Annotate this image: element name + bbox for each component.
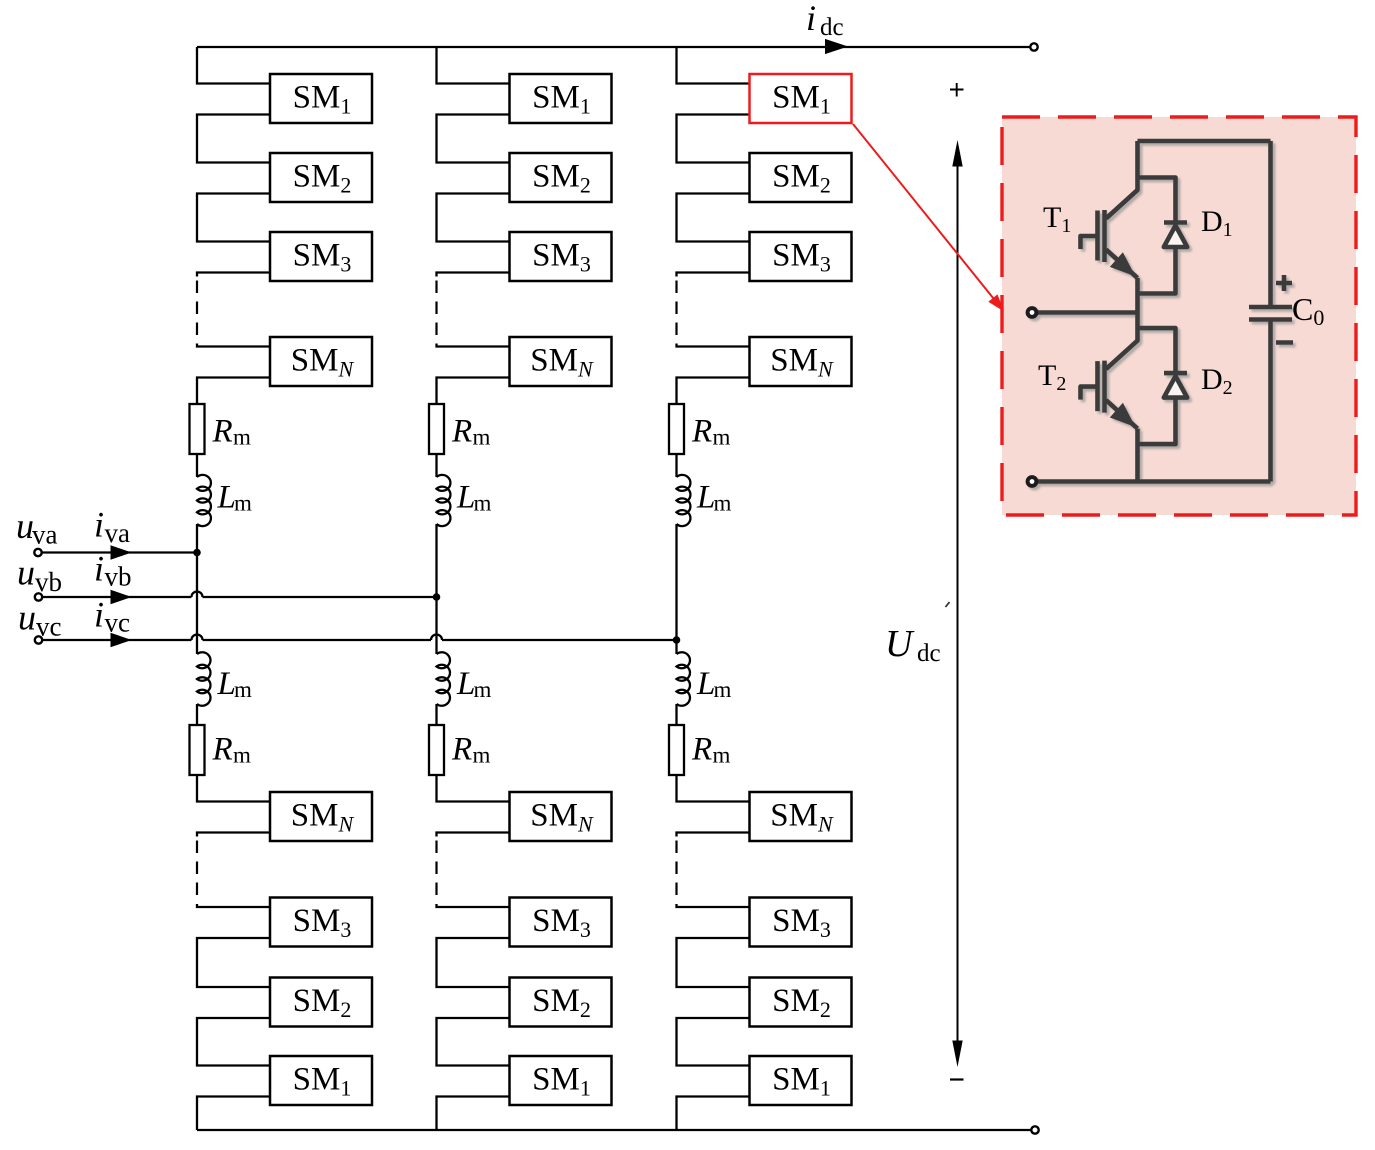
svg-text:R: R <box>691 414 712 450</box>
svg-text:dc: dc <box>917 640 941 667</box>
svg-text:m: m <box>714 677 732 702</box>
svg-text:L: L <box>217 480 236 516</box>
svg-text:u: u <box>17 553 35 593</box>
svg-text:m: m <box>714 491 732 516</box>
svg-text:L: L <box>696 666 715 702</box>
svg-text:dc: dc <box>820 14 844 41</box>
svg-text:L: L <box>696 480 715 516</box>
svg-text:i: i <box>94 505 104 545</box>
svg-text:m: m <box>713 425 731 450</box>
svg-text:m: m <box>713 743 731 768</box>
svg-text:U: U <box>885 623 915 665</box>
svg-text:L: L <box>217 666 236 702</box>
svg-text:u: u <box>18 598 36 638</box>
svg-text:R: R <box>451 732 472 768</box>
svg-text:m: m <box>473 743 491 768</box>
svg-text:R: R <box>212 732 233 768</box>
svg-text:i: i <box>806 0 816 38</box>
svg-text:vb: vb <box>35 567 62 597</box>
svg-text:L: L <box>456 666 475 702</box>
svg-text:m: m <box>233 743 251 768</box>
svg-text:L: L <box>456 480 475 516</box>
svg-text:vc: vc <box>105 608 131 638</box>
svg-text:m: m <box>233 425 251 450</box>
svg-text:vc: vc <box>36 612 62 642</box>
svg-text:i: i <box>94 595 104 635</box>
svg-text:va: va <box>105 518 131 548</box>
svg-text:m: m <box>234 677 252 702</box>
svg-text:va: va <box>32 520 58 550</box>
svg-text:R: R <box>212 414 233 450</box>
svg-text:m: m <box>234 491 252 516</box>
svg-text:R: R <box>691 732 712 768</box>
svg-text:R: R <box>451 414 472 450</box>
svg-text:m: m <box>474 491 492 516</box>
svg-text:m: m <box>474 677 492 702</box>
svg-text:i: i <box>94 549 104 589</box>
svg-text:vb: vb <box>105 562 132 592</box>
svg-text:m: m <box>473 425 491 450</box>
